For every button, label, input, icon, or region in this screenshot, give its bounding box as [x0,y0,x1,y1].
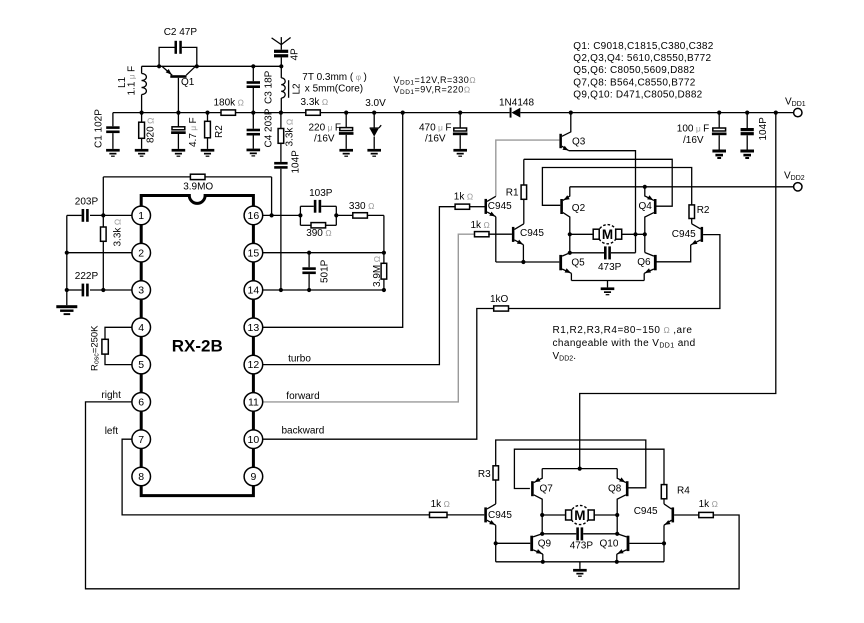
junction bridge2 bottom rail [541,560,545,564]
transistor C945a emitter arrow [489,212,495,217]
resistor 1k second [475,232,490,237]
resistor 3.3k vertical [280,113,282,129]
svg-text:C945: C945 [488,201,512,212]
wire rail D Q7 base to R4 [514,449,664,488]
svg-text:222P: 222P [75,271,99,282]
svg-text:Q5: Q5 [571,257,585,268]
svg-text:4P: 4P [290,48,301,61]
junction left rail [65,251,69,255]
ground bridge2 [579,562,581,569]
wire C945r emitter to Q6 base [657,245,691,262]
junction Q4 emitter on VDD2 rail [643,185,647,189]
transistor Q3 bar [559,134,562,148]
svg-text:3.9MO: 3.9MO [183,182,213,193]
wire bridge1 left leg [569,234,571,253]
capacitor 470uF [459,113,461,128]
ground for R2 osc [201,149,215,152]
resistor 3.3k horizontal [306,110,321,115]
svg-text:15: 15 [248,247,260,259]
svg-text:C945: C945 [634,506,658,517]
wire bridge1 bottom rail [571,280,644,282]
capacitor C4 203P [252,113,254,129]
wire pin11 forward (gray) [263,234,475,402]
wire pin13 to 3.0V rail [263,113,403,328]
svg-text:11: 11 [248,397,259,409]
wire C945b emitter down [522,245,524,262]
svg-text:14: 14 [248,285,260,297]
transistor Q9 collector [533,534,542,537]
svg-text:R2: R2 [697,205,710,216]
svg-text:/16V: /16V [314,134,335,145]
svg-text:backward: backward [282,426,325,437]
svg-text:R3: R3 [478,469,491,480]
capacitor 104P lower [274,162,287,165]
wire Q10 base [629,542,664,544]
resistor Rosc 250K [105,327,132,339]
transistor C945c collector [487,504,496,509]
wire C945d base to 1k [674,514,699,516]
svg-text:2: 2 [138,247,144,259]
inductor L2 top lead [280,66,282,78]
wire Q5 emitter down [570,273,572,280]
diode 1N4148 [510,108,512,118]
resistor 330 [336,214,353,216]
svg-text:Q8: Q8 [608,483,622,494]
ground for 4.7uF [172,149,186,152]
svg-text:3.0V: 3.0V [365,98,386,109]
zener diode [373,113,375,128]
junction 103P nodes [298,213,302,217]
transistor Q3 emitter [562,146,569,151]
wire R3 to C945c collector [495,480,497,504]
svg-text:/16V: /16V [683,135,704,146]
motor M1 dashed circle [598,225,617,244]
capacitor 473P bridge2 [542,533,576,535]
transistor Q5 bar [559,255,562,270]
svg-text:right: right [101,390,121,401]
wire Q9 emitter down [542,554,544,562]
wire Q6 emitter down [643,273,645,280]
transistor C945b collector [514,224,523,230]
transistor Q9 bar [530,536,533,551]
svg-text:turbo: turbo [288,354,311,365]
transistor Q8 emitter arrow [619,477,625,482]
svg-text:220 μ F: 220 μ F [309,123,341,134]
svg-text:330 Ω: 330 Ω [349,201,375,212]
junction bridge2 top rail [578,467,582,471]
svg-text:1N4148: 1N4148 [499,97,534,108]
inductor L2 coil [281,78,285,85]
wire pin16 [263,214,301,216]
svg-text:180k Ω: 180k Ω [214,97,245,108]
transistor Q1 emitter lead [162,66,172,75]
svg-text:3.3k Ω: 3.3k Ω [113,218,124,246]
svg-text:4: 4 [138,322,144,334]
svg-text:Q9,Q10: D471,C8050,D882: Q9,Q10: D471,C8050,D882 [573,90,702,101]
wire motor1 left [570,233,593,235]
wire Q3 base (gray) [496,140,560,196]
wire left ground rail [66,215,68,305]
svg-text:8: 8 [138,471,144,483]
ground bridge1 [607,281,609,288]
svg-text:501P: 501P [320,259,331,283]
svg-text:3.3k Ω: 3.3k Ω [301,97,329,108]
capacitor C3 plates [247,81,260,84]
transistor Q4 bar [654,199,657,214]
svg-text:3.3k Ω: 3.3k Ω [285,118,296,146]
junction 473P left node [568,251,572,255]
svg-text:470 μ F: 470 μ F [419,123,451,134]
svg-text:3: 3 [138,285,144,297]
resistor 1k first [455,204,470,209]
svg-text:100 μ F: 100 μ F [677,123,709,134]
transistor Q8 collector [617,495,626,515]
transistor Q2 collector [563,213,570,235]
wire C945c emitter down [495,525,497,543]
svg-text:M: M [574,508,585,523]
capacitor 4.7uF [177,113,179,127]
svg-text:5: 5 [138,359,144,371]
svg-text:C2 47P: C2 47P [164,27,198,38]
transistor C945a bar [485,199,488,214]
wire 330 down to pin15 net [383,215,385,252]
transistor Q2 emitter arrow [564,195,570,200]
junction dots on 3.0V rail [140,111,144,115]
resistor 1k bridge2 left [430,512,448,517]
transistor Q7 emitter [534,469,543,483]
svg-text:12: 12 [248,359,260,371]
svg-text:C1 102P: C1 102P [94,109,105,148]
resistor 3.9MO [190,174,205,179]
capacitor 473P bridge1 [570,252,604,254]
svg-text:16: 16 [248,210,260,222]
wire osc collector net y=66.3 [142,65,282,67]
resistor R2 osc [207,113,209,122]
svg-text:103P: 103P [309,188,333,199]
transistor Q7 emitter arrow [534,477,540,482]
svg-text:1.1 μ F: 1.1 μ F [127,66,138,96]
transistor C945r emitter arrow [691,240,697,245]
inductor L2 bottom lead [280,98,282,113]
svg-text:203P: 203P [75,196,99,207]
svg-text:changeable with the VDD1 and: changeable with the VDD1 and [553,338,696,350]
resistor 390 [311,223,326,228]
transistor C945c emitter [487,520,496,525]
svg-text:Q1: C9018,C1815,C380,C382: Q1: C9018,C1815,C380,C382 [573,41,713,52]
capacitor C1 102P [112,113,114,127]
svg-text:Q2: Q2 [572,203,586,214]
transistor C945r bar [701,227,704,242]
transistor C945a emitter [487,212,496,217]
capacitor 4P plates [274,50,288,53]
transistor Q10 emitter arrow [617,549,623,554]
wire motor1 right [622,233,645,235]
transistor Q3 collector [562,113,571,137]
svg-text:9: 9 [250,471,256,483]
wire Q3 emitter to motor1 right [569,151,636,253]
IC box RX-2B [141,196,253,496]
svg-text:L2: L2 [292,83,303,95]
wire 1k to C945c base [447,514,484,516]
ground left rail [56,305,77,308]
svg-text:1kO: 1kO [490,294,509,305]
resistor R2 bridge [689,205,695,219]
transistor Q10 bar [627,536,630,551]
junction 473P-2 left node [540,532,544,536]
wire VDD1 feed to bridge2 [580,113,776,469]
capacitor 220uF [345,113,347,128]
svg-text:1k Ω: 1k Ω [699,499,719,510]
wire VDD2 rail [570,186,794,188]
svg-text:Q4: Q4 [639,201,653,212]
capacitor 103P plates [314,200,317,213]
wire C945d node to rail [663,543,665,561]
svg-text:Q3: Q3 [572,137,586,148]
transistor Q1 collector lead [186,66,195,75]
ground for zener [367,149,381,152]
svg-text:/16V: /16V [425,134,446,145]
ground for C1 [106,149,120,152]
svg-text:Q2,Q3,Q4: 5610,C8550,B772: Q2,Q3,Q4: 5610,C8550,B772 [573,53,711,64]
wire bridge2 top rail [542,468,617,470]
transistor C945d emitter [664,520,672,525]
transistor C945b bar [512,227,515,242]
transistor Q4 emitter arrow [647,195,653,200]
transistor Q8 emitter [617,469,626,483]
transistor C945b emitter [514,240,523,245]
wire C945a emitter down to Q5 base net [495,217,497,262]
svg-text:R2: R2 [214,125,225,138]
transistor Q6 emitter arrow [645,268,651,273]
junction C945b emitter [521,260,525,264]
transistor Q1 bar [170,75,186,78]
transistor Q4 emitter [645,187,654,201]
ground for C4 [247,149,261,152]
capacitor 100uF [718,113,720,128]
transistor Q9 emitter arrow [536,549,542,554]
motor M2 dashed circle [570,505,589,524]
motor M1 left brush [593,229,599,239]
junction motor2 nodes [540,513,544,517]
svg-text:1: 1 [138,210,144,222]
svg-text:C945: C945 [520,228,544,239]
resistor 1kO [494,306,509,311]
resistor 1k bridge2 right [699,512,714,517]
capacitor C2 plates [175,41,178,54]
junction pin15 node right [382,251,386,255]
ground for 100uF [712,150,726,153]
wire 104P to pin14 net [280,169,282,290]
antenna [280,37,282,45]
transistor C945c emitter arrow [489,520,495,525]
wire pin12 turbo [263,207,455,365]
capacitor 4P bottom lead [280,57,282,66]
transistor C945b emitter arrow [517,240,523,245]
capacitor C3 top lead [252,66,254,81]
wire C945c node to rail [495,543,497,562]
transistor Q8 bar [626,481,629,496]
wire R4 to C945d collector [663,499,665,504]
junction pin16 node [270,213,274,217]
wire bridge2 left leg [541,515,543,534]
wire pin14 [263,289,384,291]
wire Q9 base [496,542,531,544]
resistor R1 [523,159,525,185]
svg-text:R1: R1 [506,188,519,199]
svg-text:Q5,Q6: C8050,5609,D882: Q5,Q6: C8050,5609,D882 [573,65,695,76]
capacitor C2 loop wires [159,47,174,66]
svg-text:10: 10 [248,434,260,446]
network 103P/390 box [299,206,301,225]
svg-text:Q7: Q7 [540,483,554,494]
svg-text:473P: 473P [570,541,594,552]
svg-text:M: M [602,227,613,242]
wire rail A R1 to Q4 base [524,159,672,206]
IC pins 1-16 [132,206,151,225]
junction pin14 nodes [279,288,283,292]
wire rail B Q2 base to R2 [542,168,691,206]
transistor C945a collector [487,196,496,201]
transistor C945d collector [664,504,672,509]
svg-text:C3 18P: C3 18P [264,70,275,104]
wire bridge2 bottom rail [496,561,664,563]
svg-text:1k Ω: 1k Ω [431,499,451,510]
wire pin2 [67,252,132,254]
transistor Q10 collector [617,534,626,537]
transistor Q1 base lead [177,78,179,113]
wire 3.9MO net [102,177,104,216]
svg-text:473P: 473P [598,262,622,273]
svg-text:Q6: Q6 [637,257,651,268]
wire 3.0V rail [113,112,221,114]
junction C945d emitter node [662,541,666,545]
svg-text:Q9: Q9 [538,538,552,549]
svg-text:7T 0.3mm ( φ ): 7T 0.3mm ( φ ) [302,72,367,83]
wire VDD1 rail [520,112,793,114]
transistor Q5 emitter [562,269,571,273]
wire pin15 [263,252,384,254]
wire rail C R3 to Q8 base [496,440,646,488]
resistor 820 ohm [141,113,143,123]
svg-text:390 Ω: 390 Ω [306,228,332,239]
transistor C945r emitter [691,240,701,245]
svg-text:C945: C945 [488,510,512,521]
svg-text:1k Ω: 1k Ω [471,220,491,231]
capacitor 501P [308,253,310,268]
svg-text:RX-2B: RX-2B [172,336,223,355]
wire motor2 left [542,514,565,516]
junction bridge2 right leg cap node [615,532,619,536]
wire bridge2 right leg [616,515,618,534]
transistor Q7 bar [531,481,534,496]
ground for 220uF [339,149,353,152]
wire R2 to C945r collector [691,219,693,224]
svg-text:6: 6 [138,397,144,409]
svg-text:3.9M Ω: 3.9M Ω [372,255,383,287]
ground for 820 [135,149,149,152]
junction pin1 node [101,213,105,217]
transistor Q5 collector [562,253,570,256]
inductor L1 coil [142,74,147,81]
transistor Q10 emitter [617,550,627,554]
svg-text:104P: 104P [291,150,302,174]
wire C945d emitter down [663,525,665,543]
terminal VDD1 [794,108,802,116]
svg-text:R4: R4 [677,486,690,497]
motor M2 left brush [566,510,572,520]
junction 501P node [307,251,311,255]
transistor C945c bar [484,507,487,522]
svg-text:7: 7 [138,434,144,446]
wire Q5 base net [496,261,560,263]
svg-text:820 Ω: 820 Ω [146,117,157,143]
motor M1 right brush [616,229,622,239]
transistor Q1 emitter arrow [166,69,172,75]
svg-text:C4 203P: C4 203P [264,108,275,147]
junction pin3 node [101,288,105,292]
motor M2 right brush [588,510,594,520]
transistor Q6 emitter [644,269,654,273]
resistor 180k [221,110,236,115]
transistor C945d emitter arrow [664,520,670,525]
junction dots on osc net [157,64,161,68]
transistor Q6 bar [654,255,657,270]
svg-text:104P: 104P [758,117,769,141]
svg-text:forward: forward [286,391,319,402]
wire pin7 left net [122,439,429,515]
svg-text:left: left [105,426,119,437]
transistor Q4 collector [645,213,654,235]
svg-text:Q7,Q8: B564,C8550,B772: Q7,Q8: B564,C8550,B772 [573,77,695,88]
transistor Q2 bar [560,199,563,214]
wire 1k to C945a base [470,206,485,208]
wire 1k to C945b base [488,233,512,235]
wire motor2 right [594,514,617,516]
transistor Q3 emitter arrow [563,146,569,151]
transistor Q6 collector [645,253,654,257]
resistor 3.9M vertical [383,253,385,264]
inductor L1 bottom lead [141,95,143,113]
junction dots on VDD1 rail [569,111,573,115]
capacitor 104P top [746,113,748,128]
transistor Q7 collector [534,495,543,515]
junction motor1 nodes [568,232,572,236]
transistor Q2 emitter [563,187,570,201]
svg-text:1k Ω: 1k Ω [454,191,474,202]
svg-text:C945: C945 [672,229,696,240]
resistor 3.3k left vertical [102,215,104,227]
wire pin6 right net [86,402,740,589]
wire Q10 emitter down [616,554,618,562]
inductor L1 top lead [141,66,143,73]
transistor Q9 emitter [533,550,543,554]
terminal VDD2 [794,183,802,191]
transistor Q5 emitter arrow [565,268,571,273]
inductor L2 core bar [288,80,290,98]
svg-text:13: 13 [248,322,260,334]
svg-text:Q10: Q10 [600,538,619,549]
capacitor C3 bottom lead [252,88,254,113]
wire pin10 backward [263,309,494,440]
svg-text:4.7 μ F: 4.7 μ F [188,117,199,147]
ground for 104P top [740,150,754,153]
transistor C945d bar [672,507,675,522]
wire 1kO to right C945 base [509,235,720,309]
svg-text:Q1: Q1 [181,77,195,88]
resistor R3 [493,466,499,480]
capacitor 222P [67,289,82,291]
svg-text:x 5mm(Core): x 5mm(Core) [305,83,363,94]
